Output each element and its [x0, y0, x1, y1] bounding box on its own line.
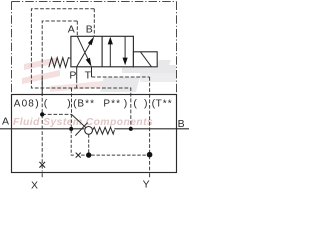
svg-text:B**: B** [77, 99, 95, 110]
watermark logo band (pink, upper-left) [22, 57, 135, 92]
svg-text:A: A [68, 23, 75, 35]
svg-text:P: P [69, 69, 76, 81]
watermark logo band (gray, right) [100, 60, 176, 92]
wire: valve port A line [76, 21, 78, 36]
junction node P channel / line B [129, 127, 133, 131]
valve U1 crossed path A-T with arrowhead [77, 36, 90, 63]
svg-text:P**: P** [103, 99, 121, 110]
wire: A08 channel segment across manifold edge [41, 78, 43, 96]
wire: Y channel through T** orifice down to port Y [149, 77, 151, 172]
directional valve U1 body (two position squares) [71, 36, 133, 67]
svg-text:): ) [35, 98, 39, 110]
valve U1 crossed path P-B with arrowhead [77, 39, 93, 66]
junction node drain below check valve [86, 152, 91, 157]
wire: pilot branch from node A to check valve [42, 113, 71, 115]
wire: check valve pilot release diagonal [71, 114, 86, 128]
wire: valve port P stub [76, 67, 78, 80]
wire: drain from A-line node down and right [71, 130, 75, 155]
svg-text:B: B [178, 118, 185, 130]
junction node A (pilot/X) [40, 112, 44, 116]
wire: drain from check valve down [88, 135, 90, 155]
junction node drain / Y channel [147, 152, 153, 158]
wire: B** orifice channel down to junction row [71, 88, 73, 114]
svg-text:Fluid System Components: Fluid System Components [13, 117, 153, 128]
wire: T link to Y channel [92, 76, 150, 78]
valve U1 return spring [49, 58, 71, 67]
valve U1 right position down arrow [124, 36, 126, 58]
wire: main line B (right of check valve) [114, 128, 189, 130]
svg-text:Y: Y [143, 179, 150, 191]
wire: main line A (left of check valve) [0, 128, 84, 130]
svg-text:(: ( [44, 98, 48, 110]
check valve V1 ball [85, 126, 93, 134]
enclosure boundary (chain line), right edge [176, 2, 178, 94]
check valve V1 seat line [75, 123, 87, 136]
solenoid S1 [133, 52, 157, 67]
svg-text:X: X [31, 180, 38, 191]
svg-text:T: T [85, 69, 92, 81]
enclosure boundary (chain line), top edge [12, 1, 177, 3]
wire: junction row down to node on A-B line [70, 114, 72, 128]
enclosure boundary (chain line), left edge [11, 2, 13, 95]
svg-text:A: A [2, 116, 9, 128]
svg-text:(: ( [133, 98, 137, 110]
svg-text:): ) [67, 98, 71, 110]
wire: drain line to Y channel [81, 154, 149, 156]
svg-text:A08: A08 [14, 99, 35, 110]
manifold block outline [12, 95, 177, 173]
svg-text:B: B [86, 23, 93, 35]
wire: valve port T stub [91, 67, 93, 77]
pilot wire: valve port A loop (up, left, down through A08 orifice to node A) [42, 21, 77, 114]
pilot wire: valve port B loop (up, left, down, right, down through P** orifice to node on A-B line) [31, 9, 130, 129]
plug cross on X channel [39, 162, 45, 168]
svg-text:T**: T** [156, 99, 173, 110]
valve U1 right position up arrow [109, 43, 111, 67]
wire: valve port B line [93, 9, 95, 37]
plug cross on drain line [76, 153, 81, 158]
wire: X channel from node A down to port X [41, 114, 43, 171]
junction node on line A [69, 127, 73, 131]
svg-text:): ) [144, 98, 148, 110]
svg-text:): ) [124, 98, 128, 110]
check valve V1 spring [93, 127, 115, 134]
